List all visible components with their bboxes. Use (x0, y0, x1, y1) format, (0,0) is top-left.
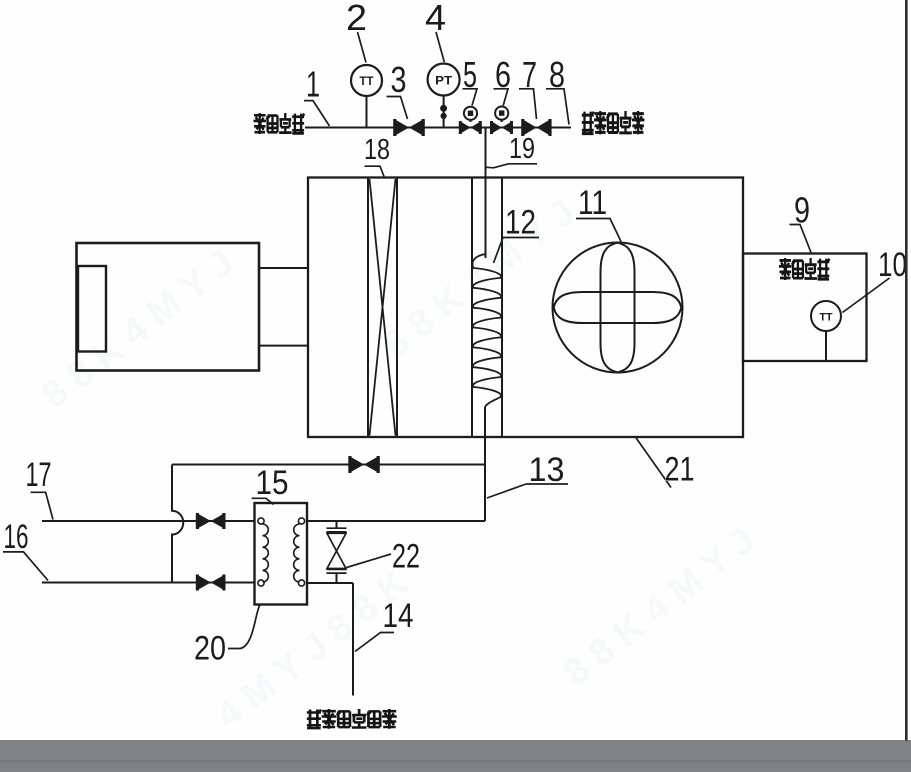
label 6 leader (494, 89, 509, 106)
filter X cross (370, 179, 396, 436)
svg-text:6: 6 (495, 54, 511, 95)
label 8 leader (546, 89, 569, 125)
label 9 leader (790, 225, 812, 253)
temperature gauge 10 circle (811, 301, 841, 331)
svg-text:1: 1 (306, 64, 320, 105)
label 14 leader (355, 633, 394, 652)
number labels (306, 0, 810, 231)
temperature gauge 2 circle (351, 65, 382, 96)
svg-text:8: 8 (549, 54, 565, 95)
heat exchanger 15 body (255, 503, 308, 605)
wire steam pipe (node 1) (305, 127, 571, 129)
label 10 leader (843, 278, 890, 313)
svg-text:19: 19 (509, 133, 535, 165)
wire gauge10 stem (825, 331, 827, 361)
svg-text:8 8 K 4 M Y J: 8 8 K 4 M Y J (556, 519, 764, 694)
svg-text:8 8 K 4 M Y J: 8 8 K 4 M Y J (34, 242, 242, 417)
label 19 leader (487, 164, 538, 168)
svg-text:15: 15 (256, 464, 289, 502)
label 18 leader (365, 166, 385, 176)
text steam pipe label 蒸汽管路 (254, 113, 305, 134)
label 20 leader (228, 605, 260, 649)
leaders (3, 32, 890, 652)
wire TT2 stem (366, 96, 368, 128)
svg-text:5: 5 (463, 54, 477, 95)
valve 3 bowtie (393, 119, 425, 136)
main unit casing (21) (308, 178, 743, 438)
label 11 leader (576, 219, 621, 242)
exchanger port bottom-right (298, 580, 304, 586)
label 15 leader (252, 498, 274, 504)
label 16 leader (3, 552, 48, 581)
svg-text:TT: TT (820, 312, 833, 324)
svg-text:7: 7 (522, 54, 537, 95)
bypass valve on top bypass line (348, 456, 380, 473)
svg-text:17: 17 (26, 456, 52, 494)
valve 22 vertical hollow (327, 528, 347, 573)
label 2 leader (358, 32, 367, 63)
pressure gauge 4 circle (428, 64, 460, 96)
bottom bar accent line (0, 760, 911, 762)
wire box-to-unit lower (259, 345, 308, 347)
svg-text:11: 11 (578, 184, 607, 222)
text condensate drain label 冷凝水排水管 (307, 709, 397, 729)
bottom scan bar dark edge (0, 740, 911, 742)
wire exchanger top-right to drain drop (307, 520, 485, 522)
fan 11 circle (553, 243, 683, 373)
svg-text:3: 3 (391, 59, 407, 100)
wire PT4 stem (443, 95, 445, 128)
exchanger port top-right (298, 518, 304, 524)
valve on pipe 16 (196, 575, 226, 591)
svg-text:2: 2 (346, 0, 367, 38)
motor valve 6 (490, 107, 513, 135)
svg-text:16: 16 (4, 518, 29, 556)
svg-text:13: 13 (529, 451, 565, 489)
svg-text:4: 4 (425, 0, 446, 38)
valve 7 bowtie (521, 119, 551, 136)
exchanger right coil (294, 524, 300, 582)
text supply duct label 送风管道 (779, 258, 830, 280)
scan border right edge (905, 0, 908, 741)
exchanger left coil (263, 524, 269, 582)
wire bypass top line (172, 464, 485, 466)
svg-text:20: 20 (194, 630, 226, 668)
wire exchanger bottom-right drain (307, 583, 353, 696)
wire coil drain drop (node 13) (484, 407, 486, 521)
fan 11 vertical blade band (601, 243, 635, 373)
valve on pipe 17 (196, 513, 226, 529)
label 1 leader (304, 101, 330, 126)
svg-text:14: 14 (383, 597, 414, 635)
return air box left outer (77, 243, 260, 371)
svg-text:8 8 K 4 M Y J: 8 8 K 4 M Y J (375, 191, 583, 366)
svg-text:18: 18 (364, 134, 390, 166)
label 7 leader (519, 89, 537, 119)
wire valve22 stem (336, 521, 338, 583)
fan 11 horizontal blade band (554, 292, 682, 323)
label 21 leader (636, 438, 671, 488)
wire bypass vertical with hop over pipe 17 (172, 465, 183, 583)
svg-text:21: 21 (665, 451, 695, 489)
label 22 leader (347, 554, 392, 568)
svg-text:9: 9 (794, 190, 810, 231)
filter frame lines (18) (368, 178, 397, 438)
label 17 leader (31, 492, 53, 519)
label 12 leader (494, 238, 540, 264)
return air box inner rect (78, 266, 106, 352)
exchanger port bottom-left (258, 580, 264, 586)
needle valve under PT4 (440, 105, 447, 119)
label 3 leader (387, 97, 408, 120)
svg-text:10: 10 (878, 246, 907, 284)
motor valve 5 (459, 107, 482, 134)
label 4 leader (436, 32, 444, 62)
wire 19 coil supply drop (485, 128, 487, 259)
supply duct box 9 (743, 254, 867, 362)
wire box-to-unit upper (259, 267, 308, 269)
wire pipe 17 (42, 520, 255, 522)
label 5 leader (463, 89, 478, 106)
text cooling water pipe label 冷却水管路 (582, 111, 645, 134)
exchanger port top-left (258, 518, 264, 524)
bottom scan gray bar (0, 742, 911, 772)
svg-text:22: 22 (392, 538, 420, 576)
heating coil 12 (472, 254, 501, 407)
wire pipe 16 (42, 582, 255, 584)
svg-text:TT: TT (360, 74, 375, 88)
svg-text:12: 12 (505, 204, 536, 242)
label 13 leader (487, 484, 568, 498)
svg-text:PT: PT (435, 74, 453, 88)
coil channel lines (472, 178, 502, 438)
